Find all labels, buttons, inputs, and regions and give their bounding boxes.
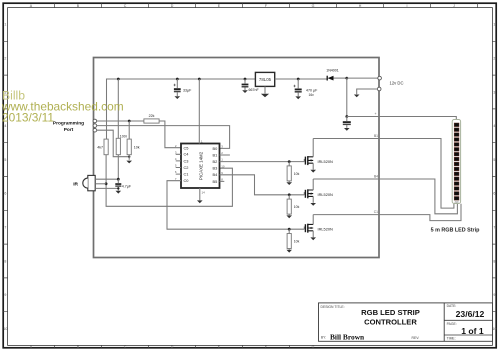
svg-text:Bill Brown: Bill Brown [330,332,364,341]
resistor 22k [144,114,159,123]
svg-text:B0: B0 [213,146,219,151]
node junction Q3 gate resistor [288,228,291,231]
node junction IR Vcc cap [117,178,120,181]
svg-text:C2: C2 [184,165,189,170]
title block outline [319,303,493,341]
svg-text:14: 14 [202,191,206,195]
node rail junction at 33uF [176,78,179,81]
svg-text:2: 2 [493,57,495,61]
svg-text:IRL520N: IRL520N [318,159,334,164]
wire Q1 drain to LED strip [313,139,454,209]
IC left pin labels [184,145,190,183]
svg-text:8: 8 [493,259,495,263]
svg-text:10: 10 [492,327,496,331]
node junction Q1 gate resistor [288,160,291,163]
ground under 12V cap [344,128,350,131]
svg-text:C1: C1 [374,210,378,214]
IC pin number labels [175,139,225,194]
svg-text:6: 6 [4,192,6,196]
svg-text:4k7: 4k7 [97,146,103,150]
label DATE [447,304,457,308]
svg-text:1: 1 [4,23,6,27]
capacitor 33uF [174,79,193,96]
wire +12V to LED strip [347,117,457,121]
svg-text:33µF: 33µF [183,89,192,93]
label BY [321,336,326,340]
svg-text:16v: 16v [309,93,315,97]
svg-text:5: 5 [493,158,495,162]
ground Q1 source [310,170,316,173]
wire +12V down feed [346,78,348,116]
wire junction to ground [128,157,130,160]
svg-text:1 of 1: 1 of 1 [461,326,484,336]
svg-text:IR: IR [73,181,78,187]
svg-text:D: D [171,4,174,8]
svg-text:667nF: 667nF [249,88,260,92]
svg-text:G: G [312,345,315,349]
wire Q3 drain to LED strip [313,204,461,221]
ground IC [197,200,203,203]
svg-text:BY:: BY: [321,336,326,340]
wire IC pin7 to Q3 gate [167,181,304,230]
svg-text:J10: J10 [454,200,459,204]
capacitor 12V rail decoupling [343,117,351,128]
svg-text:C: C [124,345,127,349]
svg-text:B3: B3 [213,166,218,171]
ground under 78L05 [261,94,269,98]
label date value [456,309,485,319]
regulator U2 78L05 [255,72,274,86]
IC U1 PICAXE 14M2 [181,144,220,189]
node rail junction at IC pin1 [198,78,201,81]
svg-text:78L05: 78L05 [259,77,272,82]
svg-text:22k: 22k [149,114,155,118]
ground IR [116,191,122,194]
port Programming Port pins [93,119,97,132]
resistor 10k Q1 gate pulldown [287,162,299,182]
svg-text:7: 7 [493,226,495,230]
wire port pin1 to 22k [97,120,144,122]
label PAGE [447,322,457,326]
svg-text:470 µF: 470 µF [306,88,318,92]
svg-text:J: J [453,4,455,8]
diode D1 1N4001 [326,69,347,81]
node junction IR gnd [117,187,119,189]
ground Q2 source [310,203,316,206]
label page value [461,326,484,336]
svg-text:CONTROLLER: CONTROLLER [364,318,417,327]
svg-text:C: C [124,4,127,8]
wire 12v negative to ground [357,89,378,94]
svg-text:Port: Port [64,127,74,133]
capacitor 4.7uF IR filter [115,179,132,190]
ground under 33uF [175,96,181,99]
label REV [412,336,420,340]
connector J1 LED strip [452,120,460,204]
wire 4k7 to IR data and IC pin10 [106,155,232,207]
transistor Q3 IRL520N [304,215,333,238]
ground Q3 source [310,237,316,240]
wire +5V top rail [107,79,256,139]
svg-text:10k: 10k [294,172,300,176]
label net + [375,112,377,116]
wire port pin2 to IC pin13 [97,126,230,149]
IC right pin labels [213,146,219,184]
svg-text:B1: B1 [374,134,378,138]
svg-text:4: 4 [493,124,495,128]
node junction 470uF [297,78,300,81]
IR receiver [73,175,95,190]
svg-text:Programming: Programming [53,120,84,126]
capacitor 667nF [242,79,260,92]
wire IR pin2 data [95,183,106,185]
label 12v DC [390,81,404,86]
pin 12v DC positive [378,76,382,80]
svg-text:9: 9 [4,293,6,297]
svg-text:I: I [407,4,408,8]
wire 78L05 ground pin [264,86,266,93]
svg-text:B2: B2 [213,159,218,164]
svg-text:B4: B4 [213,172,219,177]
resistor 100r IR supply [116,79,128,179]
node junction 12V rail [345,115,348,118]
capacitor C4 470uF 16v [293,79,318,97]
svg-text:5: 5 [4,158,6,162]
svg-text:2013/3/11: 2013/3/11 [2,110,54,124]
connector pins [454,123,459,200]
wire IC pin14 to ground [199,188,201,200]
svg-text:RGB LED STRIP: RGB LED STRIP [361,308,420,317]
watermark [1,88,124,124]
svg-text:PICAXE 14M2: PICAXE 14M2 [198,151,203,180]
wire IC pin11 to Q1 gate [220,161,305,163]
node junction serial-in divider [128,120,131,123]
label net C1 [374,210,378,214]
svg-text:G: G [312,4,315,8]
svg-text:7: 7 [4,226,6,230]
resistor 10k serial pulldown [127,121,140,157]
label Bill Brown [330,332,364,341]
node rail junction at resistor 100r [117,78,120,81]
wire to 12v DC pin1 [347,77,378,79]
svg-text:C4: C4 [184,152,190,157]
svg-text:100r: 100r [120,135,128,139]
ground 12v input [354,95,360,98]
svg-text:1N4001: 1N4001 [326,69,339,73]
svg-text:2: 2 [4,57,6,61]
svg-text:TIME:: TIME: [447,337,456,341]
ground Q2 gate resistor [286,215,292,218]
ground Q3 gate resistor [286,250,292,253]
svg-text:D: D [171,345,174,349]
svg-text:REV:: REV: [412,336,420,340]
ground under 667nF [242,90,248,93]
svg-text:5 m RGB LED Strip: 5 m RGB LED Strip [431,228,481,234]
svg-text:H: H [359,4,362,8]
svg-text:PAGE:: PAGE: [447,322,457,326]
ground Q1 gate resistor [286,182,292,185]
label net B4 [374,174,378,178]
ground under 470uF [295,96,301,99]
svg-text:10: 10 [221,164,225,168]
svg-text:10k: 10k [294,205,300,209]
svg-text:8: 8 [4,259,6,263]
resistor 4k7 IR pullup [97,139,108,155]
svg-text:DATE:: DATE: [447,304,457,308]
resistor 10k Q3 gate pulldown [287,229,299,249]
node junction 12V feed [345,77,348,80]
svg-text:C5: C5 [184,145,189,150]
label TIME [447,337,456,341]
wire IC pin9 to Q2 gate [220,175,305,195]
transistor Q2 IRL520N [304,179,333,203]
label net B1 [374,134,378,138]
label Programming Port [53,120,84,133]
label 5 m RGB LED Strip [431,228,481,234]
label design title text [361,308,420,326]
IC unconnected stubs [176,154,230,181]
node junction IR data [105,182,108,185]
wire IR pin1 Vcc [95,178,118,180]
svg-text:+: + [375,112,377,116]
label J10 [454,200,459,204]
label DESIGN TITLE [321,305,345,309]
svg-text:IRL520N: IRL520N [318,192,334,197]
svg-text:1: 1 [493,23,495,27]
node junction Q2 gate resistor [288,193,291,196]
svg-text:C3: C3 [184,158,189,163]
node rail junction at 667nF [244,78,247,81]
svg-text:IRL520N: IRL520N [318,226,334,231]
resistor 10k Q2 gate pulldown [287,195,299,215]
svg-text:23/6/12: 23/6/12 [456,309,485,319]
svg-text:12v DC: 12v DC [390,81,404,86]
wire port pin3 to ground net [97,130,130,157]
svg-text:10k: 10k [134,146,140,150]
svg-text:4.7µF: 4.7µF [122,184,132,188]
svg-text:4: 4 [4,124,6,128]
wire IC pin1 to rail [198,79,200,144]
wire 78L05 input from 12V [275,78,328,80]
svg-text:B5: B5 [213,179,218,184]
svg-text:6: 6 [493,192,495,196]
svg-text:9: 9 [493,293,495,297]
wire Q2 drain to LED strip [313,179,457,214]
svg-text:C0: C0 [184,178,190,183]
svg-text:DESIGN TITLE:: DESIGN TITLE: [321,305,345,309]
svg-text:10k: 10k [294,240,300,244]
ground serial divider [126,161,132,164]
node junction 10k bottom [128,156,130,158]
svg-text:B4: B4 [374,174,378,178]
svg-text:C1: C1 [184,172,189,177]
wire IR pin3 gnd [95,187,118,189]
svg-text:B1: B1 [213,152,218,157]
transistor Q1 IRL520N [304,139,333,170]
main schematic box [94,58,380,258]
pin 12v DC negative [377,87,381,91]
svg-text:10: 10 [3,327,7,331]
wire 22k to IC pin2 [159,121,181,148]
svg-text:3: 3 [493,90,495,94]
